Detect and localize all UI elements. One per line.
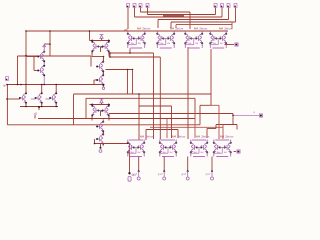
svg-text:2b/um: 2b/um [145,135,154,139]
svg-text:M4: M4 [220,135,224,139]
svg-text:gnd!: gnd! [158,173,163,176]
svg-text:2b/um: 2b/um [175,27,184,31]
svg-text:gnd!: gnd! [181,173,186,176]
svg-text:gnd!: gnd! [132,173,137,176]
svg-text:2b/um: 2b/um [199,27,208,31]
svg-text:M4: M4 [170,27,174,31]
svg-text:2b/um: 2b/um [225,135,234,139]
svg-text:n5: n5 [34,112,37,116]
svg-text:M4: M4 [137,27,141,31]
svg-text:M4: M4 [196,135,200,139]
svg-text:2b/um: 2b/um [224,27,233,31]
svg-text:2b/um: 2b/um [177,135,186,139]
svg-text:M4: M4 [140,135,144,139]
svg-text:2b/um: 2b/um [201,135,210,139]
svg-text:gnd!: gnd! [206,173,211,176]
svg-text:2b/um: 2b/um [142,27,151,31]
svg-text:vd!: vd! [124,28,128,32]
svg-text:M4: M4 [194,27,198,31]
svg-text:M4: M4 [219,27,223,31]
svg-text:M4: M4 [172,135,176,139]
